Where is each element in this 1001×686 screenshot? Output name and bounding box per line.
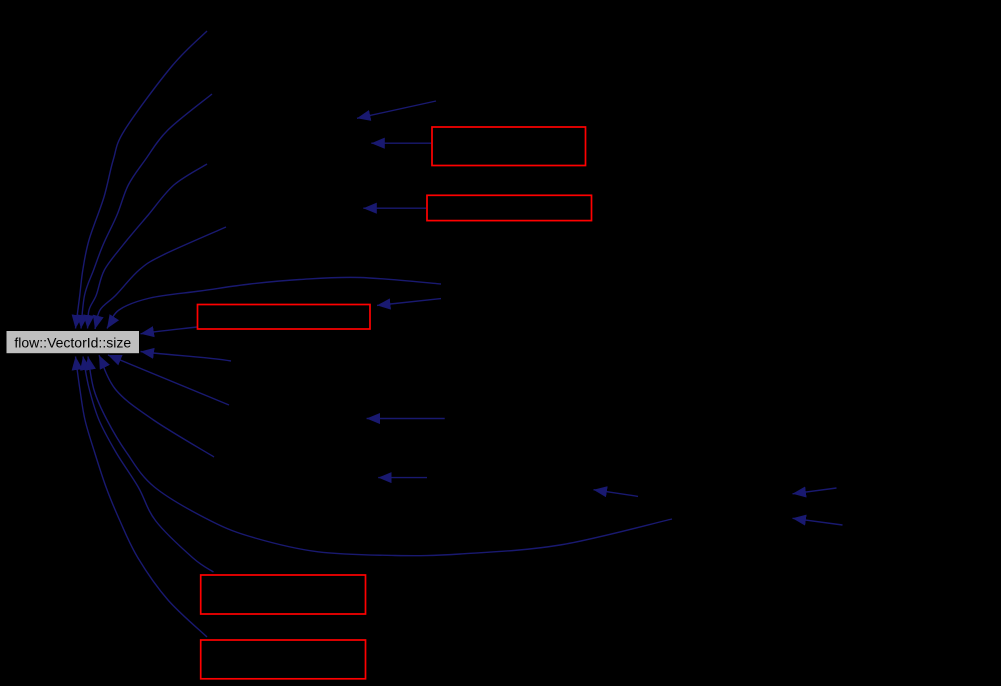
wire edge K0 to main node right edge [141, 352, 232, 362]
node R2 red box (one-line) [427, 195, 592, 220]
wire edge box R1 to I3 [371, 142, 431, 144]
wire edge K1 to main node bottom [108, 355, 229, 405]
wire edge F to B lower [793, 518, 843, 525]
wire edge J1 to I2 [357, 101, 436, 118]
wire edge into K2 [378, 477, 427, 479]
wire edge box R4 to main node bottom [83, 357, 214, 573]
wire edge box R3 to main node [141, 327, 198, 334]
node R4 red box (two-line) [201, 575, 366, 614]
wire edge B to C [594, 490, 639, 497]
wire edge I4 to main node [95, 227, 226, 329]
node R3 red box (one-line) [198, 305, 371, 330]
node R5 red box (two-line) [201, 640, 366, 679]
wire edge swoop from node B to main node bottom [88, 357, 672, 556]
wire edge K2 to main node bottom [99, 355, 214, 457]
node flow::VectorId::size (highlighted) [6, 331, 140, 354]
svg-text:flow::VectorId::size: flow::VectorId::size [14, 335, 131, 351]
wire edge G to main node (long flat curve) [107, 277, 441, 328]
wire edge I3 to main node [88, 164, 208, 329]
wire edge box R5 to main node bottom [76, 357, 208, 638]
wire edge I2 to main node [81, 94, 212, 329]
wire edge I1 to main node [76, 31, 208, 329]
node R1 red box (two-line) [432, 127, 586, 166]
wire edge E to B upper [793, 488, 837, 494]
wire edge box R2 to I4 [363, 207, 426, 209]
wire edge into K1 [367, 418, 445, 420]
wire edge G to box R3 [377, 299, 441, 306]
